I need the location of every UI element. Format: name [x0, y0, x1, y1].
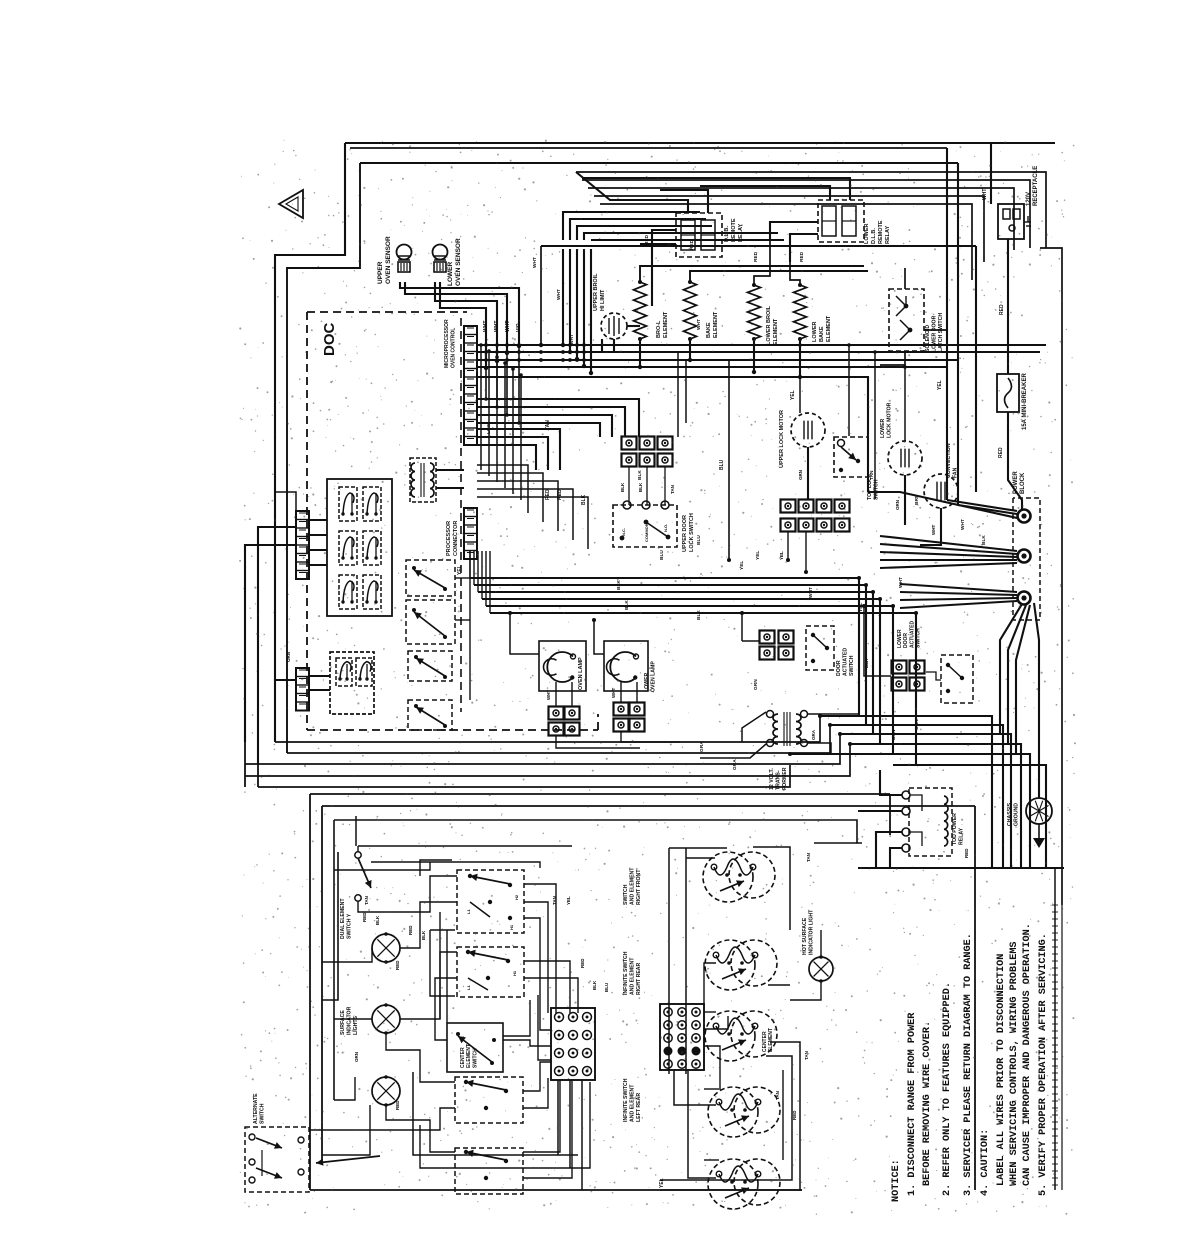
cluster wrap wire 4 — [430, 930, 455, 996]
wires lower door switch — [864, 606, 891, 676]
bus tier A line 3 — [477, 359, 958, 361]
svg-text:OVEN SENSOR: OVEN SENSOR — [455, 238, 462, 286]
svg-text:LOWER: LOWER — [644, 672, 650, 692]
svg-text:SWITCH Y: SWITCH Y — [347, 913, 353, 939]
svg-text:YEL: YEL — [858, 603, 864, 612]
cluster wire B — [322, 948, 372, 962]
svg-text:RED: RED — [395, 960, 400, 970]
connector strip left of relays — [296, 511, 309, 579]
DOC dashed control box top — [307, 311, 467, 313]
svg-text:RIGHT REAR: RIGHT REAR — [636, 962, 642, 995]
svg-text:H1: H1 — [512, 970, 517, 976]
alternate switch arrow pointer — [316, 1156, 380, 1163]
svg-text:BLK: BLK — [981, 535, 987, 545]
svg-text:15A MINI-BREAKER: 15A MINI-BREAKER — [1022, 373, 1028, 430]
svg-text:BRN: BRN — [891, 729, 897, 740]
sensor wire 1 — [400, 282, 519, 346]
svg-text:H2: H2 — [514, 894, 519, 900]
svg-text:LEFT REAR: LEFT REAR — [636, 1093, 642, 1122]
svg-text:GRN: GRN — [798, 470, 803, 480]
bus tier2 line3 — [477, 415, 612, 437]
wires TOD relay — [880, 770, 902, 795]
cluster top wire — [358, 845, 572, 847]
svg-text:INDICATOR LIGHT: INDICATOR LIGHT — [809, 909, 815, 955]
svg-text:LOWER BROIL: LOWER BROIL — [766, 305, 772, 345]
relay K6 — [363, 575, 381, 609]
svg-text:REMOTE: REMOTE — [878, 220, 884, 244]
svg-text:SWITCH: SWITCH — [849, 655, 855, 676]
element top feed wire 2 — [690, 271, 868, 282]
svg-text:WHT: WHT — [611, 688, 616, 698]
relay K3 — [339, 531, 357, 565]
wires transformer — [742, 712, 766, 742]
svg-text:RELAY: RELAY — [885, 226, 891, 244]
svg-text:WHT: WHT — [808, 587, 814, 598]
svg-text:LOCK SWITCH: LOCK SWITCH — [689, 513, 695, 552]
frame second top line — [350, 147, 947, 149]
svg-text:WHT: WHT — [982, 189, 988, 200]
frame outer left step — [275, 143, 345, 742]
sensor wire 3 — [435, 282, 497, 361]
nested wire rectangle 2 — [582, 180, 1030, 248]
bus tier3 line3 — [477, 445, 536, 470]
wire breaker to power block — [1008, 412, 1022, 510]
bus tier2 line4 — [477, 423, 600, 437]
connector strip P1 microprocessor — [464, 326, 477, 445]
lower lock motor — [888, 441, 922, 475]
svg-text:CENTER: CENTER — [762, 1031, 768, 1052]
svg-text:TAN: TAN — [869, 470, 875, 480]
resistor BROIL ELEMENT — [634, 282, 647, 339]
power block fan wires terminal2 — [880, 536, 1017, 551]
page-wide bus wire 3 — [245, 734, 840, 764]
svg-text:GROUND: GROUND — [1014, 803, 1020, 826]
svg-text:RED: RED — [999, 304, 1005, 315]
svg-text:BLU: BLU — [719, 459, 725, 470]
svg-text:RECEPTACLE: RECEPTACLE — [1033, 166, 1039, 206]
burner element right rear — [705, 940, 755, 990]
wires mid switches to strip column — [455, 577, 470, 579]
svg-text:MICROPROCESSOR: MICROPROCESSOR — [444, 319, 450, 368]
svg-text:RED: RED — [964, 848, 969, 858]
lower DLB remote relay box — [818, 200, 864, 242]
svg-text:TAN: TAN — [775, 1091, 780, 1100]
svg-text:POWER: POWER — [1013, 471, 1019, 494]
wire top lock switch up — [848, 345, 850, 436]
vertical to upper lock motor — [799, 345, 801, 413]
lower section bottom edge — [310, 1189, 802, 1191]
cluster wire I — [334, 1077, 355, 1100]
lower oven sensor — [433, 245, 448, 260]
TOD relay coil — [944, 796, 948, 846]
relay cluster lower box — [330, 652, 374, 714]
svg-text:TAN: TAN — [804, 1051, 809, 1060]
svg-text:SOLENOID: SOLENOID — [925, 325, 931, 352]
relay K5 — [339, 575, 357, 609]
cluster wire C — [334, 1018, 372, 1020]
switch dashed box mid 3 — [408, 651, 452, 681]
cluster staircase to grid — [524, 884, 556, 1013]
wires left of center switch — [503, 1000, 530, 1036]
svg-text:1. DISCONNECT RANGE FROM POWER: 1. DISCONNECT RANGE FROM POWER — [907, 1012, 918, 1196]
cluster wire G — [310, 1108, 455, 1130]
wire lower lock motor down — [904, 475, 906, 525]
wire to chassis ground — [1038, 765, 1040, 798]
svg-text:SWITCH: SWITCH — [260, 1103, 266, 1124]
top lock switch box — [834, 437, 868, 477]
right jog horizontals — [820, 716, 992, 868]
right edge tear line with ticks — [1054, 868, 1056, 1190]
svg-text:SWITCH: SWITCH — [916, 628, 922, 648]
svg-text:OVEN SENSOR: OVEN SENSOR — [385, 236, 392, 284]
big bus line 5 — [486, 606, 893, 754]
svg-text:YEL: YEL — [739, 561, 745, 570]
door actuated switch terminal blocks — [760, 631, 775, 644]
big bus line 4 — [482, 599, 880, 744]
frame bottom right line — [858, 867, 1064, 869]
svg-text:CENTER: CENTER — [460, 1047, 466, 1068]
svg-text:WHT: WHT — [556, 289, 562, 300]
svg-text:RED: RED — [395, 1100, 400, 1110]
svg-text:BLK: BLK — [637, 470, 643, 480]
svg-text:YEL: YEL — [937, 380, 943, 390]
svg-text:FAN: FAN — [953, 467, 959, 478]
svg-text:INFINITE SWITCH: INFINITE SWITCH — [623, 951, 629, 995]
svg-text:WHT: WHT — [494, 321, 500, 332]
junction dots tier A — [484, 343, 488, 347]
power block fan wires terminal3 — [900, 584, 1017, 592]
wires to lower DLB relay — [700, 186, 830, 200]
svg-text:RED: RED — [580, 958, 585, 968]
svg-text:TAN: TAN — [670, 485, 675, 494]
svg-text:LOW: LOW — [486, 422, 492, 434]
burner wires cascade — [704, 1011, 716, 1013]
DOC dashed control box bottom — [307, 729, 598, 731]
svg-text:BLK: BLK — [864, 658, 869, 668]
svg-text:SURFACE: SURFACE — [340, 1010, 346, 1035]
svg-text:ORN: ORN — [286, 652, 291, 662]
coil transformer small — [411, 463, 415, 497]
hot surface indicator light — [809, 957, 833, 981]
oven lamp — [547, 652, 573, 682]
lower section top edge 2 — [322, 805, 975, 807]
cluster extra wire rect 2 — [334, 862, 430, 870]
big bus left staircase — [469, 551, 471, 578]
svg-text:RED: RED — [545, 489, 551, 500]
svg-text:CAN CAUSE IMPROPER AND DANGERO: CAN CAUSE IMPROPER AND DANGEROUS OPERATI… — [1022, 923, 1033, 1186]
svg-text:BLK: BLK — [581, 494, 587, 505]
vertical wire to receptacle top — [990, 143, 992, 204]
svg-text:YEL: YEL — [457, 565, 463, 575]
svg-text:H1: H1 — [509, 924, 514, 930]
svg-text:LOWER: LOWER — [880, 418, 886, 438]
svg-text:LOWER: LOWER — [812, 322, 818, 342]
solenoid lower door latch switch box — [889, 289, 924, 351]
big bus line 1 — [470, 578, 859, 716]
svg-text:LOWER: LOWER — [897, 629, 903, 648]
power block terminal 2 — [1018, 550, 1031, 563]
cluster wrap wire 2 — [420, 860, 452, 876]
svg-text:ACTUATED: ACTUATED — [843, 648, 849, 676]
vertical 875 — [874, 352, 876, 499]
cluster extra vertical 447 — [446, 930, 448, 1023]
right long vertical pair — [946, 148, 948, 500]
wires to upper DLB relay — [576, 172, 688, 213]
burner element left rear — [708, 1087, 758, 1137]
svg-text:BLK: BLK — [616, 580, 622, 590]
upper broil hi limit circle — [601, 313, 627, 339]
svg-text:WHT: WHT — [898, 577, 904, 588]
bus tier2 line1 — [477, 399, 639, 437]
15A mini-breaker — [997, 374, 1019, 412]
staircase drops below tier A — [485, 346, 487, 399]
infinite switch box right front — [457, 870, 524, 933]
svg-text:BEFORE REMOVING WIRE COVER.: BEFORE REMOVING WIRE COVER. — [922, 1021, 933, 1186]
surface indicator light 1 — [372, 934, 400, 962]
lamp connector pairs A — [549, 707, 564, 720]
svg-text:HOT SURFACE: HOT SURFACE — [802, 917, 808, 955]
svg-text:INFINITE SWITCH: INFINITE SWITCH — [623, 1078, 629, 1122]
connector strip P3 processor — [464, 508, 477, 559]
wires below lamp connectors — [556, 736, 640, 748]
svg-text:RELAY: RELAY — [959, 827, 965, 845]
lower section right verticals — [889, 794, 891, 835]
relay K7 — [336, 658, 352, 686]
svg-text:CONVECTION: CONVECTION — [946, 443, 952, 478]
wire lock motor down — [807, 447, 809, 499]
power block dashed outline — [1013, 498, 1040, 620]
bus tier A line 1 — [477, 344, 1046, 346]
TOD power relay box — [909, 788, 952, 856]
page-wide bus wire 4 — [245, 744, 850, 776]
svg-text:INDICATOR: INDICATOR — [347, 1006, 353, 1035]
resistor LOWER BAKE ELEMENT — [794, 285, 807, 339]
lamp wires — [555, 682, 557, 706]
svg-text:WHT: WHT — [696, 319, 702, 330]
svg-text:DUAL ELEMENT: DUAL ELEMENT — [340, 898, 346, 939]
svg-text:ACTUATED: ACTUATED — [909, 620, 915, 648]
svg-text:COMMON: COMMON — [644, 523, 649, 542]
bus tier A line 5 — [477, 377, 868, 492]
svg-text:N.C.: N.C. — [621, 528, 626, 536]
svg-text:SWITCH: SWITCH — [472, 1048, 478, 1068]
svg-text:WHT: WHT — [505, 321, 511, 332]
svg-text:FORMER: FORMER — [782, 767, 788, 790]
lower oven lamp — [610, 652, 636, 682]
burner bottom cascade — [770, 1042, 800, 1190]
svg-text:BLK: BLK — [620, 482, 625, 492]
svg-text:ORN: ORN — [895, 500, 900, 510]
cluster bottom rail 2 — [420, 1082, 590, 1168]
cluster bottom rail — [413, 1072, 578, 1155]
wires below 2x4 block — [787, 532, 789, 560]
svg-text:4. CAUTION:: 4. CAUTION: — [980, 1129, 991, 1196]
svg-text:UPPER DOOR: UPPER DOOR — [682, 515, 688, 552]
svg-text:TAN: TAN — [552, 896, 557, 905]
chassis ground arrow — [1038, 824, 1040, 838]
svg-text:ELEMENT: ELEMENT — [713, 311, 719, 338]
upper DLB remote relay box — [676, 213, 722, 257]
power block lower fan wires — [1000, 604, 1022, 734]
svg-text:LOCK MOTOR: LOCK MOTOR — [887, 402, 893, 438]
svg-text:CHASSIS: CHASSIS — [1007, 802, 1013, 826]
svg-text:BLK: BLK — [624, 600, 630, 610]
terminal grid block A — [551, 1008, 595, 1080]
bus tier A line 2 — [477, 351, 1040, 353]
relay K2 — [363, 487, 381, 521]
lower-left b-tier corners — [477, 465, 528, 513]
svg-text:RED: RED — [557, 489, 563, 500]
long vertical 678 — [677, 352, 679, 437]
svg-text:WHT: WHT — [546, 690, 551, 700]
120V receptacle — [998, 204, 1024, 239]
long white wire to right — [541, 245, 976, 247]
infinite switch box right rear — [457, 947, 524, 997]
svg-text:YEL: YEL — [790, 390, 796, 400]
long vertical BLU — [728, 360, 730, 560]
svg-text:DOOR: DOOR — [836, 660, 842, 676]
long vertical 686 — [685, 360, 687, 423]
left bus vertical joiner — [244, 742, 246, 787]
relay K1 — [339, 487, 357, 521]
lower section left verticals — [309, 794, 311, 1190]
svg-text:REMOTE: REMOTE — [731, 218, 737, 242]
bus tier2 line2 — [477, 407, 625, 437]
cluster wrap wire 5 — [355, 816, 357, 846]
svg-text:HI LIMIT: HI LIMIT — [600, 289, 606, 311]
svg-text:TOD POWER: TOD POWER — [952, 813, 958, 845]
big bus line 2 — [474, 585, 866, 725]
svg-text:WHT: WHT — [532, 257, 538, 268]
12 volt transformer — [773, 714, 778, 744]
lower element top feeds — [754, 240, 770, 285]
svg-text:RELAY: RELAY — [738, 224, 744, 242]
svg-text:YEL: YEL — [566, 896, 571, 905]
element bottom drops — [639, 339, 641, 367]
DOC dashed control box right stub — [597, 714, 599, 730]
svg-text:LOWER DOOR: LOWER DOOR — [932, 315, 938, 352]
nested wire rectangle 3 — [588, 188, 1014, 250]
page-wide bus wire 1 — [275, 716, 820, 742]
svg-text:GRA: GRA — [732, 759, 738, 770]
lower oven lamp box — [604, 641, 648, 691]
svg-text:D.L.B.: D.L.B. — [871, 228, 877, 244]
svg-text:UPPER: UPPER — [377, 261, 384, 284]
lower section top edge 1 — [310, 793, 890, 795]
sensor wire 4 — [440, 282, 486, 368]
page-wide bus wire 2 — [287, 725, 830, 753]
dual element switch terminals — [355, 852, 361, 858]
svg-text:ORN: ORN — [914, 719, 920, 730]
vertical to lower lock motor — [904, 367, 906, 441]
svg-text:ELEMENT: ELEMENT — [466, 1044, 472, 1068]
burner area top wires — [669, 847, 727, 849]
wire hi-limit stub — [602, 339, 614, 352]
svg-text:RED: RED — [799, 251, 805, 262]
warning triangle — [279, 190, 303, 218]
svg-text:BLU: BLU — [696, 535, 702, 545]
surface indicator light 3 — [372, 1077, 400, 1105]
svg-text:BLU: BLU — [604, 983, 609, 992]
convection fan — [924, 474, 958, 508]
bus tier3 line2 — [477, 437, 548, 470]
page-wide bus wire 5 — [258, 765, 790, 787]
burner element right front — [703, 852, 753, 902]
cluster wire F — [435, 978, 457, 1040]
svg-text:120V: 120V — [1026, 192, 1032, 206]
connector strip lower left — [296, 668, 309, 711]
svg-text:LOWER: LOWER — [864, 224, 870, 244]
lower door actuated switch terminal blocks — [892, 661, 907, 674]
frame inner left step — [287, 163, 360, 753]
svg-text:WHEN SERVICING CONTROLS, WIRIN: WHEN SERVICING CONTROLS, WIRING PROBLEMS — [1009, 941, 1020, 1186]
lower door actuated switch dashed box — [941, 655, 973, 703]
DOC dashed right edge — [460, 318, 462, 712]
terminal grid block B — [660, 1004, 704, 1070]
power block terminal 3 — [1018, 592, 1031, 605]
connector block 2x4 upper — [781, 500, 796, 513]
switch dashed box mid 1 — [406, 560, 455, 596]
svg-text:YEL: YEL — [755, 551, 761, 560]
svg-text:SWITCH: SWITCH — [623, 884, 629, 905]
svg-text:UPPER LOCK MOTOR: UPPER LOCK MOTOR — [779, 410, 785, 468]
DOC dashed control box left — [306, 312, 308, 730]
cluster wire E — [386, 1105, 455, 1152]
svg-text:2. REFER ONLY TO FEATURES EQUI: 2. REFER ONLY TO FEATURES EQUIPPED. — [942, 982, 953, 1196]
svg-text:GRA: GRA — [699, 741, 705, 752]
wires lower cluster — [309, 675, 330, 677]
big bus line 3 — [478, 592, 873, 734]
svg-text:12 VOLT: 12 VOLT — [769, 769, 775, 790]
svg-text:TAN: TAN — [364, 896, 369, 905]
switch dashed box mid 2 — [406, 600, 455, 644]
svg-text:OVEN LAMP: OVEN LAMP — [578, 657, 584, 690]
svg-text:BLK: BLK — [592, 980, 597, 990]
chassis ground symbol — [1026, 798, 1052, 824]
relay K4 — [363, 531, 381, 565]
svg-text:LATCH SWITCH: LATCH SWITCH — [938, 313, 944, 352]
resistor LOWER BROIL ELEMENT — [748, 285, 761, 339]
cluster wire D — [386, 1033, 455, 1082]
svg-text:ALTERNATE: ALTERNATE — [253, 1093, 259, 1124]
svg-text:BLOCK: BLOCK — [1020, 472, 1026, 494]
upper lock motor — [791, 413, 825, 447]
TOD relay terminals — [902, 791, 910, 799]
svg-text:RED: RED — [998, 447, 1004, 458]
svg-text:ELEMENT: ELEMENT — [773, 318, 779, 345]
svg-text:N.O.: N.O. — [663, 524, 668, 532]
nested wire rectangle 1 — [576, 172, 1046, 248]
relay cluster box upper — [327, 479, 392, 616]
svg-text:DOC: DOC — [321, 323, 338, 357]
svg-text:LABEL ALL WIRES PRIOR TO DISCO: LABEL ALL WIRES PRIOR TO DISCONNECTION — [996, 954, 1007, 1186]
upper door lock switch terminal blocks — [622, 437, 637, 450]
oven lamp box — [539, 641, 586, 691]
svg-text:UPPER BROIL: UPPER BROIL — [593, 273, 599, 311]
bus tier A line 4 — [477, 366, 947, 368]
alternate switch dashed box — [245, 1127, 309, 1192]
center element switch box — [447, 1023, 503, 1072]
svg-text:WHT: WHT — [569, 334, 575, 345]
svg-text:ELEMENT: ELEMENT — [768, 1028, 774, 1052]
svg-text:ELEMENT: ELEMENT — [826, 315, 832, 342]
svg-text:AND ELEMENT: AND ELEMENT — [630, 1084, 636, 1122]
svg-text:WHT: WHT — [483, 321, 489, 332]
frame outer top line — [345, 142, 1055, 144]
svg-text:LOWER: LOWER — [447, 262, 454, 286]
burner element left front — [708, 1159, 758, 1209]
wire convection fan down — [920, 508, 941, 545]
